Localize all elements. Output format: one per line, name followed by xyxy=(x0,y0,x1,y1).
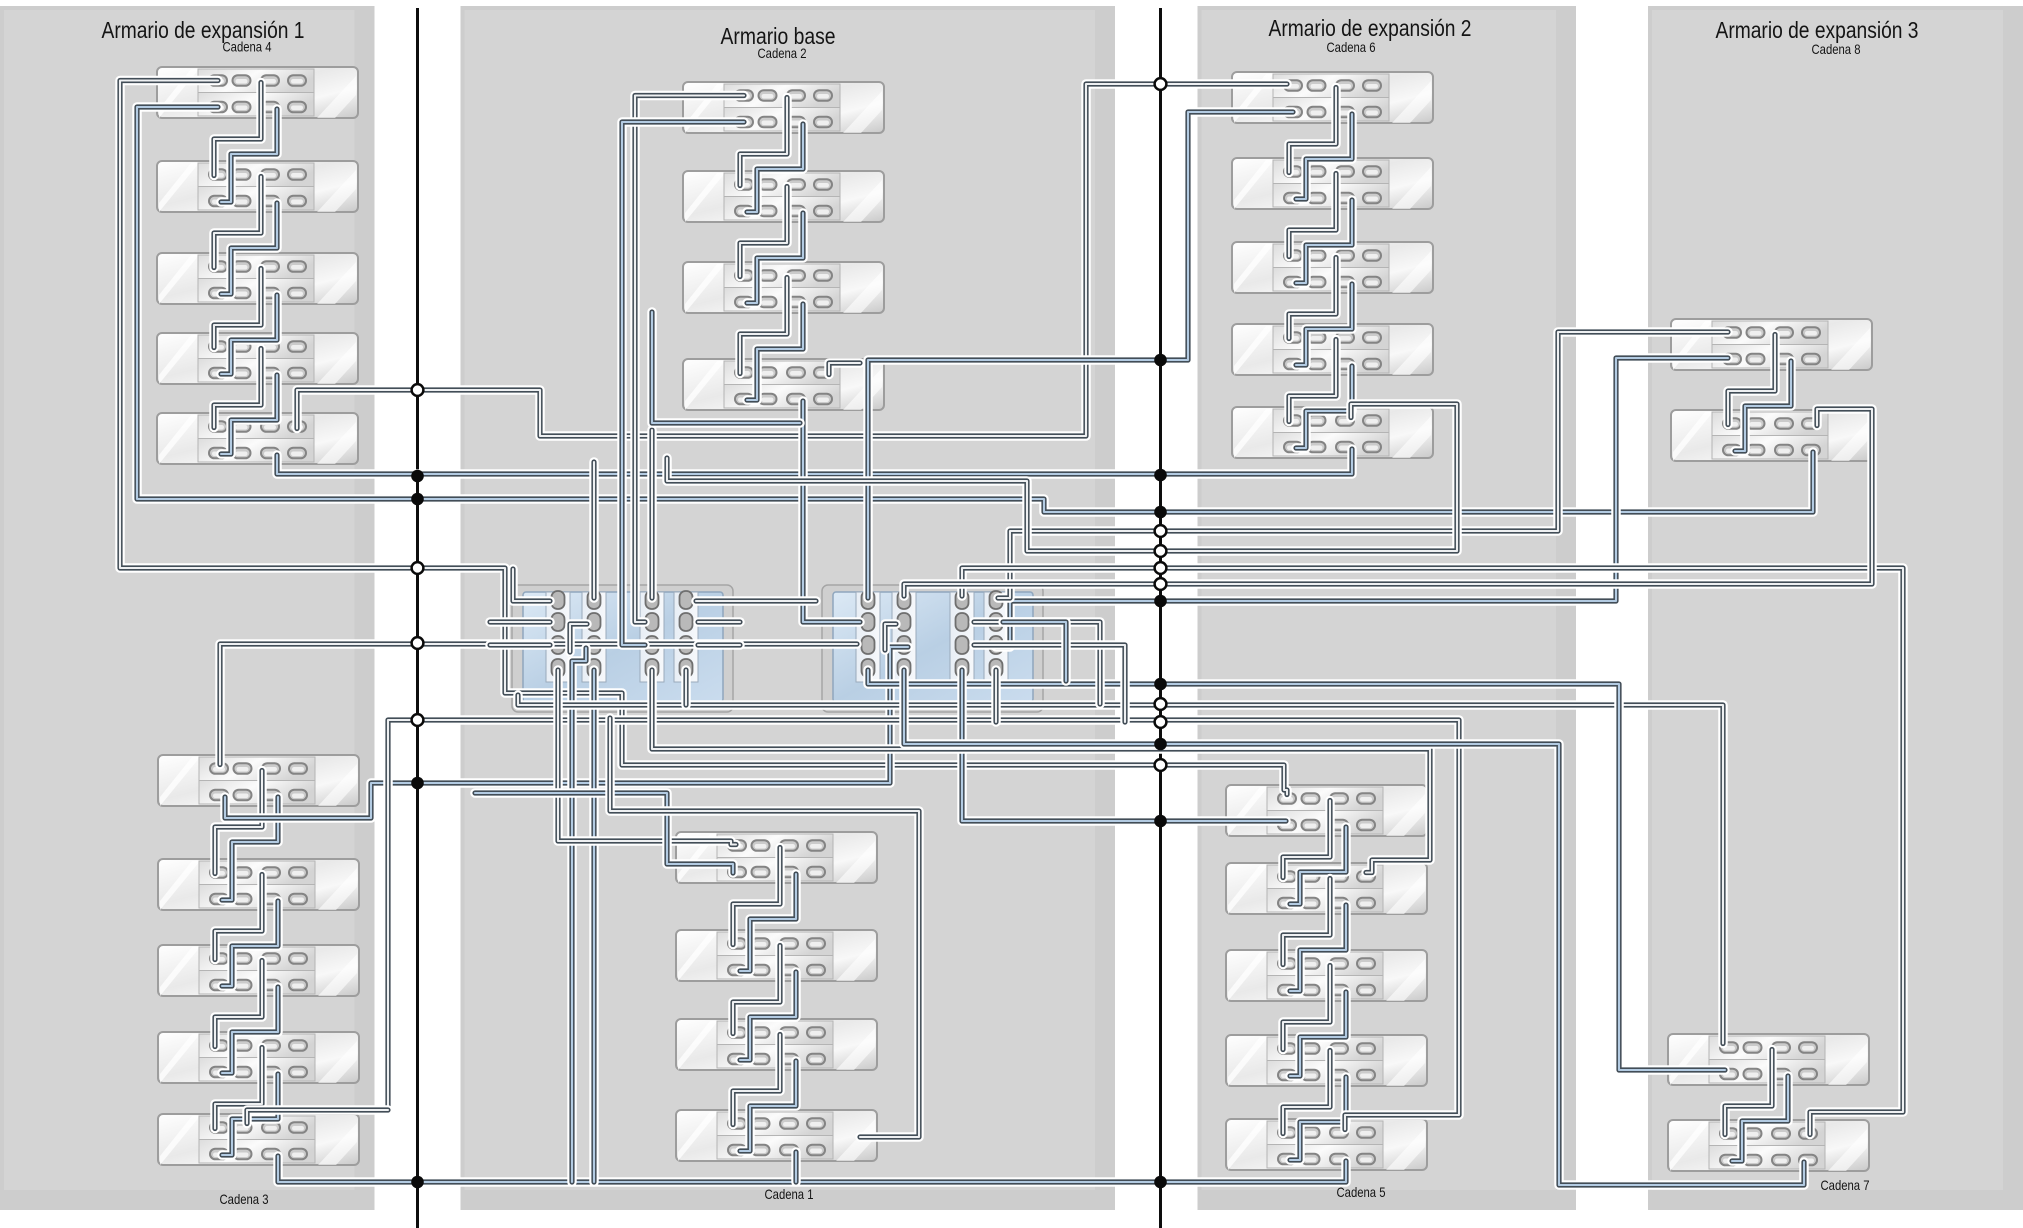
node bus2 y360 xyxy=(1154,354,1167,367)
wire cadena2 shelf4 hook to trunk xyxy=(829,363,860,375)
wire cadena1 shelf1 SAS to shelf2 xyxy=(733,848,780,945)
disk shelf cadena 2 shelf 3 xyxy=(683,262,884,313)
node bus2 y1182 xyxy=(1154,1176,1167,1189)
wire controller2 card3 port3 feed xyxy=(974,645,1125,722)
title Armario de expansion 1 xyxy=(102,17,305,43)
cabinet panel Armario de expansion 3 xyxy=(1648,6,2023,1210)
disk shelf cadena 3 shelf 5 xyxy=(158,1114,359,1165)
controller 1 HBA card 2 xyxy=(582,591,606,682)
wire controller1 card2 port2 feed xyxy=(570,624,587,652)
wire cadena7 shelf1 SAS to shelf2 xyxy=(1725,1050,1772,1135)
disk shelf cadena 3 shelf 2 xyxy=(158,859,359,910)
svg-text:Cadena 7: Cadena 7 xyxy=(1821,1177,1870,1193)
wire cadena5 shelf3 SAS to shelf4 xyxy=(1283,966,1330,1050)
node bus2 y684 xyxy=(1154,678,1167,691)
wire cadena6 shelf1 SAS-B to shelf2 xyxy=(1296,114,1352,199)
wire cadena6 shelf3 SAS-B to shelf4 xyxy=(1296,284,1352,365)
controller 2 HBA card 2 xyxy=(892,591,916,682)
svg-text:Armario de expansión 3: Armario de expansión 3 xyxy=(1716,17,1919,43)
wire cadena8 shelf1 SAS to shelf2 xyxy=(1728,335,1775,425)
node bus2 y722 xyxy=(1155,716,1167,728)
disk shelf cadena 3 shelf 4 xyxy=(158,1032,359,1083)
svg-text:Cadena 6: Cadena 6 xyxy=(1327,39,1376,55)
disk shelf cadena 2 shelf 2 xyxy=(683,171,884,222)
wire cadena4 shelf3 SAS to shelf4 xyxy=(214,269,261,348)
controller 1 HBA card 4 xyxy=(674,591,698,682)
wire cadena3 shelf3 SAS-B to shelf4 xyxy=(222,987,278,1073)
controller 2 HBA card 4 xyxy=(984,591,1008,682)
wire cadena3 shelf1 SAS to shelf2 xyxy=(215,771,262,874)
wire controller1 to cadena5 shelf2 xyxy=(652,670,1430,873)
label Cadena 5 xyxy=(1337,1184,1386,1200)
wire controller2 to cadena8 shelf1 port B xyxy=(996,358,1728,647)
wire cadena6 shelf3 SAS to shelf4 xyxy=(1289,258,1336,339)
wire cadena2 shelf4 port B to controller2 xyxy=(803,401,860,622)
disk shelf cadena 4 shelf 2 xyxy=(157,161,358,212)
disk shelf cadena 6 shelf 2 xyxy=(1232,158,1433,209)
node bus2 y584 xyxy=(1155,578,1167,590)
wire controller1 card2 port4 drop to bottom trunk xyxy=(589,670,599,1182)
disk shelf cadena 4 shelf 5 xyxy=(157,413,358,464)
disk shelf cadena 7 shelf 1 xyxy=(1668,1034,1869,1085)
wire trunk y551 to cadena6 shelf5 xyxy=(667,404,1457,551)
wire cadena6 shelf2 SAS to shelf3 xyxy=(1289,174,1336,257)
wire cadena2 shelf3 SAS-B to shelf4 xyxy=(747,304,803,400)
wire cadena5 shelf1 SAS to shelf2 xyxy=(1283,801,1330,878)
wire feed to cadena1 shelf1 port B xyxy=(475,793,733,873)
label Cadena 1 xyxy=(765,1186,814,1202)
wire trunk y720 to cadena5 shelf5 xyxy=(388,720,1459,1130)
wire cadena6 shelf1 SAS to shelf2 xyxy=(1289,88,1336,173)
node bus2 y512 xyxy=(1154,506,1167,519)
wire controller2 to cadena8 shelf2 port A4 xyxy=(904,409,1872,596)
wire cadena4 shelf1 SAS-B to shelf2 xyxy=(221,109,277,202)
wire trunk y705 to cadena7 shelf1 port A xyxy=(518,695,1723,1044)
wire controller2 to cadena8 shelf1 port A xyxy=(998,332,1728,598)
label Cadena 8 xyxy=(1812,41,1861,57)
wire cadena4 shelf2 SAS to shelf3 xyxy=(214,177,261,268)
disk shelf cadena 5 shelf 3 xyxy=(1226,950,1427,1001)
wire cadena4 shelf4 SAS to shelf5 xyxy=(214,349,261,428)
node bus1 y720 xyxy=(412,714,424,726)
wire cadena4 shelf5 to cadena6 shelf1 port A xyxy=(297,84,1287,436)
wire cadena6 shelf4 SAS-B to shelf5 xyxy=(1296,366,1352,448)
disk shelf cadena 6 shelf 1 xyxy=(1232,72,1433,123)
node bus1 y390 xyxy=(412,384,424,396)
wire cadena5 shelf1 SAS-B to shelf2 xyxy=(1290,827,1346,904)
node bus2 y531 xyxy=(1155,525,1167,537)
disk shelf cadena 7 shelf 2 xyxy=(1668,1120,1869,1171)
wire cadena2 shelf1 SAS to shelf2 xyxy=(740,98,787,186)
wire cadena1 shelf2 SAS to shelf3 xyxy=(733,946,780,1034)
node bus1 y783 xyxy=(411,777,424,790)
wire cadena3 shelf1 SAS-B to shelf2 xyxy=(222,797,278,900)
label Cadena 4 xyxy=(223,39,272,55)
wire controller2 to cadena7 shelf2 port B xyxy=(904,670,1804,1185)
wire cadena4 shelf3 SAS-B to shelf4 xyxy=(221,295,277,374)
node bus1 y499 xyxy=(411,493,424,506)
wire cadena6 shelf1 port B to controller2 xyxy=(868,112,1293,598)
wire cadena1 shelf4 port B to bottom trunk xyxy=(791,1152,801,1182)
bus line between base cabinet and cabinet 2 xyxy=(1159,8,1162,1228)
wire controller1 card4 port2 feed xyxy=(698,617,740,627)
wire cadena1 shelf2 SAS-B to shelf3 xyxy=(740,972,796,1060)
wire cadena3 shelf4 SAS-B to shelf5 xyxy=(222,1074,278,1155)
node bus2 y601 xyxy=(1154,595,1167,608)
wire controller1 card1 port2 feed xyxy=(490,617,550,627)
disk shelf cadena 1 shelf 4 xyxy=(676,1110,877,1161)
wire controller2 card3 port2 feed xyxy=(974,622,1100,704)
wire cadena1 shelf1 SAS-B to shelf2 xyxy=(740,874,796,971)
bus line between cabinet 1 and base cabinet xyxy=(416,8,419,1228)
wire cadena1 shelf3 SAS to shelf4 xyxy=(733,1035,780,1125)
controller 2 chassis xyxy=(822,585,1043,712)
controller 1 chassis xyxy=(512,585,733,712)
wire controller2 card4 port2 drop xyxy=(1003,622,1066,681)
controller 2 HBA card 3 xyxy=(950,591,974,682)
label Cadena 6 xyxy=(1327,39,1376,55)
node bus2 y551 xyxy=(1155,545,1167,557)
wire controller2 to cadena7 shelf1 port B xyxy=(868,670,1725,1070)
disk shelf cadena 4 shelf 4 xyxy=(157,333,358,384)
node bus2 y765 xyxy=(1155,759,1167,771)
wire cadena2 shelf2 SAS-B to shelf3 xyxy=(747,213,803,303)
disk shelf cadena 4 shelf 1 xyxy=(157,67,358,118)
disk shelf cadena 4 shelf 3 xyxy=(157,253,358,304)
cabinet panel Armario de expansion 1 xyxy=(0,6,375,1210)
wire controller2 to cadena3 shelf1 port B xyxy=(225,647,908,818)
svg-text:Cadena 2: Cadena 2 xyxy=(758,45,807,61)
title Armario base xyxy=(721,23,836,49)
wire controller1 card4 port1 feed xyxy=(696,596,816,606)
wire cadena5 shelf2 SAS-B to shelf3 xyxy=(1290,905,1346,991)
disk shelf cadena 2 shelf 4 xyxy=(683,359,884,410)
node bus2 y84 xyxy=(1155,78,1167,90)
wire controller1 card4 port3 feed xyxy=(698,640,740,650)
wire controller1 card4 drop xyxy=(681,670,691,705)
wire cadena6 shelf2 SAS-B to shelf3 xyxy=(1296,200,1352,283)
title Armario de expansion 2 xyxy=(1269,15,1472,41)
wire cadena5 shelf4 SAS to shelf5 xyxy=(1283,1051,1330,1134)
wire cadena2 shelf1 port A to controller1 card3 xyxy=(635,96,744,623)
disk shelf cadena 6 shelf 4 xyxy=(1232,324,1433,375)
wire cadena3 shelf3 SAS to shelf4 xyxy=(215,961,262,1047)
disk shelf cadena 8 shelf 2 xyxy=(1671,410,1872,461)
wire cadena2 shelf2 SAS to shelf3 xyxy=(740,187,787,277)
wire controller1 card1 port3 feed xyxy=(490,640,550,650)
svg-text:Cadena 8: Cadena 8 xyxy=(1812,41,1861,57)
svg-text:Cadena 1: Cadena 1 xyxy=(765,1186,814,1202)
wire cadena4 shelf5 port B to cadena6 shelf5 port B xyxy=(277,449,1352,474)
node bus1 y476 xyxy=(411,470,424,483)
wire cadena4 shelf1 port A to cadena5 shelf1 xyxy=(120,81,1287,795)
label Cadena 2 xyxy=(758,45,807,61)
label Cadena 3 xyxy=(220,1191,269,1207)
wire controller2 to cadena3 shelf1 port A xyxy=(220,644,857,765)
wire cadena4 shelf1 SAS to shelf2 xyxy=(214,83,261,176)
node bus2 y475 xyxy=(1154,469,1167,482)
wire trunk y811 to cadena1 shelf4 xyxy=(610,718,919,1137)
svg-text:Cadena 3: Cadena 3 xyxy=(220,1191,269,1207)
disk shelf cadena 3 shelf 3 xyxy=(158,945,359,996)
wire controller2 card4 drop xyxy=(991,670,1001,722)
svg-text:Cadena 4: Cadena 4 xyxy=(223,39,272,55)
controller 1 HBA card 1 xyxy=(546,591,570,682)
wire cadena4 shelf4 SAS-B to shelf5 xyxy=(221,375,277,454)
disk shelf cadena 1 shelf 3 xyxy=(676,1019,877,1070)
disk shelf cadena 5 shelf 2 xyxy=(1226,863,1427,914)
wire riser to cadena2 shelf4 drop xyxy=(652,312,800,423)
wire cadena5 shelf2 SAS to shelf3 xyxy=(1283,879,1330,965)
disk shelf cadena 6 shelf 5 xyxy=(1232,407,1433,458)
title Armario de expansion 3 xyxy=(1716,17,1919,43)
disk shelf cadena 5 shelf 5 xyxy=(1226,1119,1427,1170)
disk shelf cadena 3 shelf 1 xyxy=(158,755,359,806)
wire cadena5 shelf4 SAS-B to shelf5 xyxy=(1290,1077,1346,1160)
wire controller2 to cadena7 shelf2 port A xyxy=(962,568,1903,1135)
controller 1 HBA card 3 xyxy=(640,591,664,682)
wire cadena4 shelf1 port B to cadena8 shelf2 xyxy=(137,107,1813,512)
wire cadena7 shelf1 SAS-B to shelf2 xyxy=(1732,1076,1788,1161)
node bus1 y568 xyxy=(412,562,424,574)
wire cadena2 shelf1 port B to controller1 card3 xyxy=(622,122,744,645)
disk shelf cadena 1 shelf 2 xyxy=(676,930,877,981)
disk shelf cadena 1 shelf 1 xyxy=(676,832,877,883)
disk shelf cadena 5 shelf 1 xyxy=(1226,785,1427,836)
cabinet panel Armario base xyxy=(461,6,1116,1210)
wire cadena3 shelf4 SAS to shelf5 xyxy=(215,1048,262,1129)
disk shelf cadena 6 shelf 3 xyxy=(1232,242,1433,293)
wire controller2 to cadena5 shelf1 port B xyxy=(962,670,1286,821)
wire cadena6 shelf4 SAS to shelf5 xyxy=(1289,340,1336,422)
wire controller1 card1 port1 feed xyxy=(513,569,550,601)
disk shelf cadena 8 shelf 1 xyxy=(1671,319,1872,370)
wire cadena8 shelf1 SAS-B to shelf2 xyxy=(1735,361,1791,451)
svg-text:Armario de expansión 1: Armario de expansión 1 xyxy=(102,17,305,43)
wire cadena3 shelf2 SAS to shelf3 xyxy=(215,875,262,960)
label Cadena 7 xyxy=(1821,1177,1870,1193)
wire cadena2 shelf1 SAS-B to shelf2 xyxy=(747,124,803,212)
wire cadena3 shelf2 SAS-B to shelf3 xyxy=(222,901,278,986)
node bus1 y1182 xyxy=(411,1176,424,1189)
node bus2 y744 xyxy=(1154,738,1167,751)
node bus2 y568 xyxy=(1155,562,1167,574)
wire bottom trunk cadena3 shelf5 to cadena5 shelf5 xyxy=(278,1156,1346,1182)
wire controller1 card3 port1 feed xyxy=(647,430,657,598)
wire controller1 card2 port3 drop to bottom trunk xyxy=(572,648,586,1182)
wire cadena2 shelf3 SAS to shelf4 xyxy=(740,278,787,374)
disk shelf cadena 2 shelf 1 xyxy=(683,82,884,133)
node bus1 y643 xyxy=(412,637,424,649)
node bus2 y704 xyxy=(1155,698,1167,710)
disk shelf cadena 5 shelf 4 xyxy=(1226,1035,1427,1086)
wire controller2 card2 port2 feed xyxy=(885,624,896,650)
wire trunk to cadena3 shelf5 port A xyxy=(247,1110,388,1124)
wire controller1 card2 port1 feed xyxy=(589,462,599,598)
wire cadena4 shelf2 SAS-B to shelf3 xyxy=(221,203,277,294)
wire cadena1 shelf3 SAS-B to shelf4 xyxy=(740,1061,796,1151)
cabinet panel Armario de expansion 2 xyxy=(1198,6,1577,1210)
node bus2 y821 xyxy=(1154,815,1167,828)
svg-text:Armario de expansión 2: Armario de expansión 2 xyxy=(1269,15,1472,41)
wire controller1 card1 to cadena1 shelf1 port A xyxy=(558,670,736,845)
wire cadena5 shelf3 SAS-B to shelf4 xyxy=(1290,992,1346,1076)
controller 2 HBA card 1 xyxy=(856,591,880,682)
